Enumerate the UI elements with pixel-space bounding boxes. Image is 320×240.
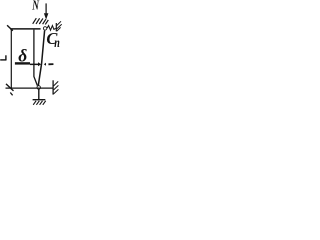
load arrow N head <box>44 13 49 19</box>
top reference line <box>10 28 40 30</box>
bottom hinge circle <box>37 86 41 90</box>
base hatching <box>33 101 46 105</box>
right wall hatching <box>54 81 59 94</box>
dimension tick top <box>7 25 13 31</box>
right wall <box>52 80 54 94</box>
dimension line L <box>10 29 12 88</box>
spring Cn zigzag <box>47 26 56 31</box>
delta leader arrowhead <box>38 62 41 66</box>
dimension tick bottom <box>6 84 14 91</box>
base line <box>33 99 46 101</box>
load arrow N shaft <box>45 3 47 14</box>
delta leader line <box>30 64 39 66</box>
lower column segment <box>38 89 40 99</box>
stray mark below bottom tick <box>10 93 12 96</box>
spring anchor wall <box>55 23 57 31</box>
label L <box>0 55 6 60</box>
svg-text:n: n <box>54 36 60 51</box>
svg-text:N: N <box>32 0 40 14</box>
column original position line <box>34 30 38 86</box>
top hinge circle <box>43 27 46 30</box>
spring wall hatching <box>57 21 62 31</box>
column deflected position line <box>38 31 44 86</box>
outside arrow tail dash <box>48 63 53 65</box>
bottom reference line <box>6 87 54 89</box>
outside arrowhead pointing left at deflected line <box>44 63 46 66</box>
top support hatching <box>33 18 49 24</box>
delta underline <box>15 62 30 64</box>
